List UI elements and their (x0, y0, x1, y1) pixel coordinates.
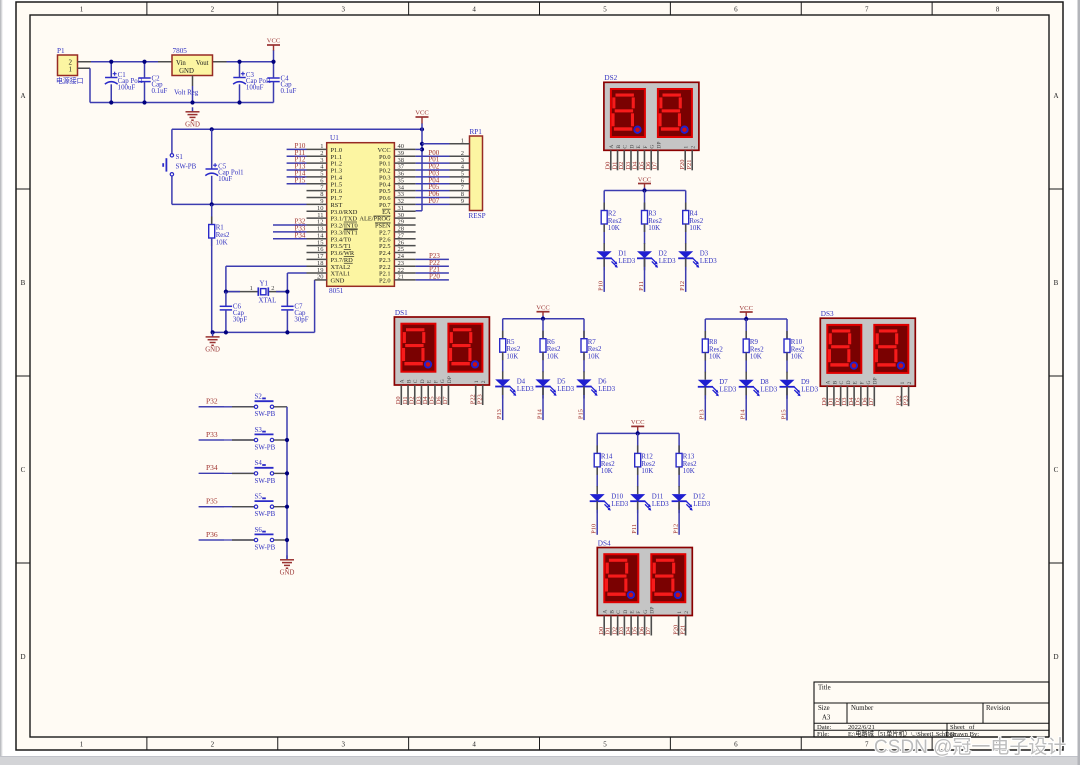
svg-text:Res2: Res2 (216, 232, 230, 239)
svg-text:LED3: LED3 (557, 386, 574, 393)
svg-text:D5: D5 (557, 379, 566, 386)
svg-text:LED3: LED3 (700, 258, 717, 265)
svg-text:G: G (650, 145, 656, 149)
svg-text:D9: D9 (801, 379, 810, 386)
svg-text:D7: D7 (645, 626, 652, 635)
svg-text:Res2: Res2 (709, 346, 723, 353)
svg-text:A: A (609, 145, 615, 149)
svg-text:2022/6/21: 2022/6/21 (848, 724, 875, 731)
svg-text:P36: P36 (206, 530, 218, 539)
svg-text:G: G (440, 379, 446, 383)
svg-text:VCC: VCC (638, 176, 652, 183)
svg-text:电源接口: 电源接口 (56, 76, 84, 85)
svg-text:GND: GND (179, 68, 194, 75)
svg-text:XTAL: XTAL (259, 298, 277, 305)
svg-text:E: E (853, 381, 859, 385)
svg-text:2: 2 (907, 382, 913, 385)
svg-text:10K: 10K (601, 468, 613, 475)
svg-text:G: G (866, 380, 872, 384)
svg-text:CSDN @冠一电子设计: CSDN @冠一电子设计 (874, 736, 1066, 758)
svg-text:R10: R10 (791, 339, 803, 346)
svg-text:8051: 8051 (329, 287, 344, 295)
svg-text:Res2: Res2 (641, 461, 655, 468)
svg-text:2: 2 (211, 6, 215, 14)
svg-text:LED3: LED3 (611, 501, 628, 508)
svg-text:D11: D11 (652, 493, 664, 500)
svg-text:100uF: 100uF (118, 85, 136, 92)
svg-text:P23: P23 (902, 395, 909, 405)
svg-text:VCC: VCC (267, 38, 281, 45)
svg-text:P14: P14 (536, 408, 543, 419)
svg-text:GND: GND (185, 121, 200, 128)
svg-text:Title: Title (818, 685, 831, 692)
svg-text:7: 7 (865, 6, 869, 14)
svg-text:D7: D7 (652, 161, 659, 170)
svg-text:4: 4 (472, 6, 476, 14)
svg-text:Res2: Res2 (547, 346, 561, 353)
svg-text:1: 1 (80, 741, 84, 749)
svg-text:VCC: VCC (739, 305, 753, 312)
svg-text:Res2: Res2 (791, 346, 805, 353)
svg-text:VCC: VCC (415, 109, 429, 116)
svg-text:P15: P15 (780, 409, 787, 419)
svg-text:10K: 10K (641, 468, 653, 475)
svg-text:VCC: VCC (536, 305, 550, 312)
svg-text:A: A (400, 379, 406, 383)
svg-text:D10: D10 (611, 493, 623, 500)
svg-text:of: of (969, 724, 975, 731)
svg-text:30pF: 30pF (294, 316, 308, 323)
svg-text:D12: D12 (693, 493, 705, 500)
svg-text:D4: D4 (517, 379, 526, 386)
svg-text:SW-PB: SW-PB (255, 411, 276, 418)
svg-text:GND: GND (205, 346, 220, 353)
svg-text:GND: GND (331, 278, 345, 285)
svg-text:R9: R9 (750, 339, 759, 346)
svg-text:RP1: RP1 (470, 128, 483, 136)
svg-text:10K: 10K (506, 353, 518, 360)
svg-text:P12: P12 (679, 281, 686, 291)
svg-text:A3: A3 (822, 715, 831, 722)
svg-text:10uF: 10uF (218, 176, 232, 183)
svg-text:SW-PB: SW-PB (255, 478, 276, 485)
svg-text:P23: P23 (477, 394, 484, 404)
svg-text:LED3: LED3 (760, 387, 777, 394)
svg-text:LED3: LED3 (618, 258, 635, 265)
svg-text:P10: P10 (591, 524, 598, 534)
svg-text:B: B (406, 379, 412, 383)
svg-text:Sheet: Sheet (950, 724, 965, 731)
svg-text:DP: DP (650, 607, 656, 614)
svg-text:Res2: Res2 (689, 218, 703, 225)
svg-text:P15: P15 (295, 176, 306, 184)
svg-text:1: 1 (80, 6, 84, 14)
svg-text:1: 1 (900, 382, 906, 385)
svg-text:VCC: VCC (631, 419, 645, 426)
svg-text:C: C (413, 379, 419, 383)
svg-text:S2: S2 (255, 394, 263, 401)
svg-text:D7: D7 (442, 396, 449, 405)
svg-text:Number: Number (851, 705, 874, 712)
svg-text:LED3: LED3 (659, 258, 676, 265)
svg-text:DS3: DS3 (821, 310, 834, 318)
svg-text:R6: R6 (547, 339, 556, 346)
svg-text:2: 2 (481, 380, 487, 383)
svg-text:1: 1 (461, 137, 464, 144)
svg-text:10K: 10K (791, 354, 803, 361)
svg-text:D: D (1053, 653, 1058, 661)
svg-text:Volt Reg: Volt Reg (174, 90, 199, 97)
svg-text:D8: D8 (760, 379, 769, 386)
svg-text:2: 2 (691, 146, 697, 149)
svg-text:Vout: Vout (196, 60, 209, 67)
svg-text:30pF: 30pF (233, 316, 247, 323)
svg-text:D7: D7 (868, 397, 875, 406)
svg-text:D: D (846, 380, 852, 384)
svg-text:5: 5 (603, 741, 607, 749)
svg-text:D6: D6 (598, 379, 607, 386)
svg-text:P21: P21 (686, 160, 693, 170)
svg-text:1: 1 (684, 146, 690, 149)
svg-text:10K: 10K (216, 240, 228, 247)
svg-text:10K: 10K (588, 353, 600, 360)
svg-text:DP: DP (656, 141, 662, 148)
svg-text:S4: S4 (255, 460, 263, 467)
svg-text:C: C (1054, 466, 1059, 474)
svg-text:P11: P11 (631, 524, 638, 534)
svg-text:DP: DP (447, 376, 453, 383)
svg-text:C: C (616, 610, 622, 614)
svg-text:P32: P32 (206, 397, 218, 406)
svg-text:S3: S3 (255, 427, 263, 434)
svg-text:R3: R3 (648, 211, 657, 218)
svg-text:P12: P12 (673, 524, 680, 534)
svg-text:P11: P11 (638, 281, 645, 291)
svg-text:E: E (630, 610, 636, 614)
svg-text:DS4: DS4 (598, 539, 611, 547)
svg-text:100uF: 100uF (246, 85, 264, 92)
svg-text:D1: D1 (618, 251, 627, 258)
svg-text:F: F (433, 380, 439, 383)
svg-text:1: 1 (69, 65, 73, 73)
svg-text:A: A (603, 610, 609, 614)
svg-text:Vin: Vin (176, 60, 186, 67)
svg-text:10K: 10K (547, 353, 559, 360)
svg-text:SW-PB: SW-PB (255, 444, 276, 451)
svg-text:10K: 10K (750, 354, 762, 361)
svg-text:D7: D7 (719, 379, 728, 386)
svg-text:3: 3 (341, 741, 345, 749)
svg-text:10K: 10K (709, 354, 721, 361)
svg-text:10K: 10K (683, 468, 695, 475)
svg-text:DS2: DS2 (604, 74, 617, 82)
svg-text:SW-PB: SW-PB (176, 164, 197, 171)
svg-text:S6: S6 (255, 527, 263, 534)
svg-text:R7: R7 (588, 339, 597, 346)
svg-text:Res2: Res2 (588, 346, 602, 353)
svg-text:1: 1 (677, 611, 683, 614)
svg-text:4: 4 (472, 741, 476, 749)
svg-text:2: 2 (271, 285, 274, 292)
svg-text:LED3: LED3 (801, 387, 818, 394)
svg-text:B: B (832, 381, 838, 385)
svg-text:1: 1 (474, 380, 480, 383)
svg-text:G: G (643, 610, 649, 614)
svg-text:GND: GND (280, 569, 295, 576)
svg-text:P2.0: P2.0 (379, 278, 391, 285)
svg-text:10K: 10K (608, 225, 620, 232)
svg-text:D3: D3 (700, 251, 709, 258)
svg-text:P20: P20 (679, 160, 686, 170)
svg-text:A: A (1053, 92, 1058, 100)
svg-text:S5: S5 (255, 494, 263, 501)
svg-text:D: D (420, 379, 426, 383)
svg-text:R5: R5 (506, 339, 515, 346)
svg-text:File:: File: (817, 731, 829, 738)
svg-text:P33: P33 (206, 430, 218, 439)
svg-text:U1: U1 (330, 134, 339, 142)
svg-text:21: 21 (398, 274, 405, 281)
svg-text:20: 20 (317, 274, 324, 281)
svg-text:5: 5 (603, 6, 607, 14)
svg-text:R14: R14 (601, 454, 613, 461)
svg-text:D: D (623, 610, 629, 614)
svg-text:10K: 10K (648, 225, 660, 232)
svg-text:R1: R1 (216, 225, 225, 232)
svg-text:8: 8 (996, 6, 1000, 14)
svg-text:R2: R2 (608, 211, 617, 218)
svg-text:B: B (609, 610, 615, 614)
svg-text:P34: P34 (206, 463, 218, 472)
svg-text:P21: P21 (679, 625, 686, 635)
svg-text:Size: Size (818, 705, 830, 712)
svg-text:P13: P13 (496, 409, 503, 419)
svg-text:Revision: Revision (986, 705, 1011, 712)
svg-text:A: A (20, 92, 25, 100)
svg-text:P34: P34 (295, 231, 306, 239)
svg-text:Date:: Date: (817, 724, 831, 731)
svg-text:1: 1 (250, 285, 253, 292)
svg-text:F: F (859, 381, 865, 384)
svg-text:LED3: LED3 (693, 501, 710, 508)
svg-text:R4: R4 (689, 211, 698, 218)
svg-text:7805: 7805 (173, 47, 188, 55)
svg-text:P10: P10 (598, 281, 605, 291)
svg-text:P07: P07 (428, 197, 439, 205)
svg-text:B: B (21, 279, 26, 287)
svg-text:P20: P20 (429, 273, 440, 281)
svg-text:D: D (20, 653, 25, 661)
svg-text:E: E (636, 145, 642, 149)
svg-text:LED3: LED3 (517, 386, 534, 393)
svg-text:R8: R8 (709, 339, 718, 346)
svg-text:Res2: Res2 (683, 461, 697, 468)
svg-text:LED3: LED3 (652, 501, 669, 508)
svg-text:LED3: LED3 (598, 386, 615, 393)
svg-text:D2: D2 (659, 251, 668, 258)
svg-text:C: C (21, 466, 26, 474)
svg-text:P35: P35 (206, 497, 218, 506)
svg-text:C: C (623, 145, 629, 149)
svg-text:P14: P14 (740, 409, 747, 420)
svg-text:P22: P22 (895, 395, 902, 405)
svg-text:9: 9 (461, 198, 464, 205)
svg-text:D: D (629, 145, 635, 149)
svg-text:2: 2 (211, 741, 215, 749)
svg-text:E: E (427, 379, 433, 383)
svg-text:2: 2 (684, 611, 690, 614)
svg-text:7: 7 (865, 741, 869, 749)
svg-text:Res2: Res2 (506, 346, 520, 353)
svg-text:RESP: RESP (469, 212, 486, 220)
svg-text:Res2: Res2 (648, 218, 662, 225)
svg-text:P15: P15 (577, 409, 584, 419)
svg-text:A: A (826, 380, 832, 384)
svg-text:R12: R12 (641, 454, 653, 461)
svg-text:C: C (839, 381, 845, 385)
svg-text:B: B (1054, 279, 1059, 287)
svg-text:SW-PB: SW-PB (255, 511, 276, 518)
svg-text:P22: P22 (470, 394, 477, 404)
svg-text:3: 3 (341, 6, 345, 14)
svg-text:DS1: DS1 (395, 309, 408, 317)
svg-text:0.1uF: 0.1uF (281, 88, 297, 95)
svg-text:SW-PB: SW-PB (255, 544, 276, 551)
svg-text:P1: P1 (57, 47, 65, 55)
svg-text:0.1uF: 0.1uF (152, 88, 168, 95)
svg-text:Y1: Y1 (260, 280, 269, 287)
svg-text:LED3: LED3 (720, 387, 737, 394)
svg-text:S1: S1 (176, 154, 184, 161)
svg-text:6: 6 (734, 741, 738, 749)
svg-text:P20: P20 (672, 625, 679, 635)
svg-text:B: B (616, 145, 622, 149)
svg-text:Res2: Res2 (601, 461, 615, 468)
svg-text:10K: 10K (689, 225, 701, 232)
svg-text:DP: DP (873, 377, 879, 384)
svg-text:F: F (636, 611, 642, 614)
svg-text:Res2: Res2 (608, 218, 622, 225)
svg-text:6: 6 (734, 6, 738, 14)
svg-text:F: F (643, 145, 649, 148)
svg-text:Res2: Res2 (750, 346, 764, 353)
svg-text:R13: R13 (683, 454, 695, 461)
svg-text:P13: P13 (699, 409, 706, 419)
